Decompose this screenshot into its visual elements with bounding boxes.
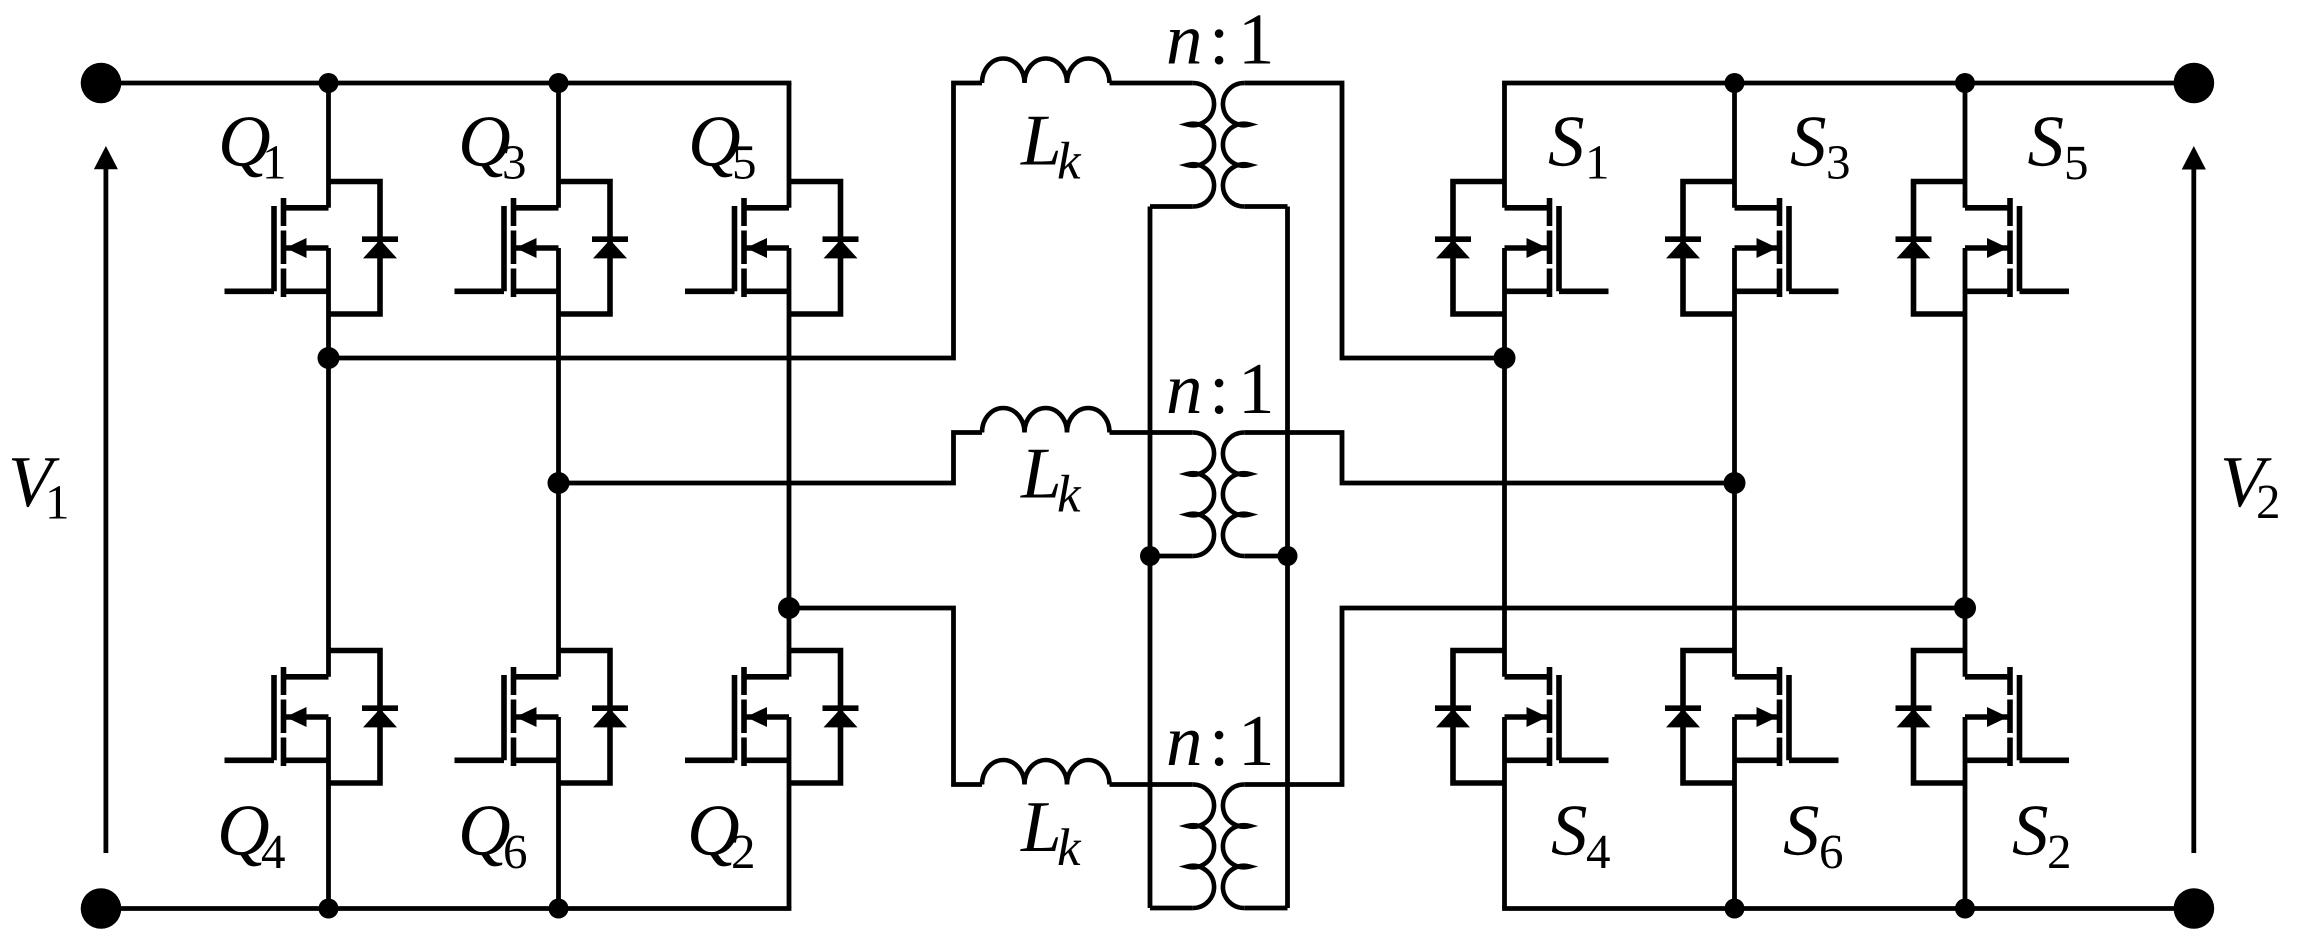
wire left leg 3 middle (source to drain, through phase node): [787, 248, 792, 677]
svg-text:1: 1: [1585, 135, 1610, 190]
wire bottom rail of right bridge (V2 -): [1502, 906, 2194, 911]
svg-text:3: 3: [502, 135, 527, 190]
transformer T1 primary winding 1 (phase A): [1187, 83, 1214, 207]
transistor S4 (MOSFET with body diode): [1435, 651, 1609, 784]
svg-text:n: n: [1166, 348, 1203, 429]
svg-text:S: S: [2028, 101, 2065, 182]
transistor S5 (MOSFET with body diode): [1896, 182, 2070, 315]
node phase B right: [1724, 472, 1746, 494]
svg-text:S: S: [1551, 790, 1588, 871]
svg-text:6: 6: [1819, 824, 1844, 879]
svg-text:S: S: [1783, 790, 1820, 871]
wire phase C from left leg 3 to series inductor: [789, 608, 982, 785]
terminal V2 positive: [2174, 63, 2215, 104]
node phase A right: [1494, 347, 1516, 369]
svg-text:4: 4: [261, 824, 286, 879]
svg-text:k: k: [1057, 465, 1082, 523]
wire right leg 1 upper (drain of top switch): [1502, 83, 1507, 208]
svg-text:5: 5: [732, 135, 757, 190]
transistor S6 (MOSFET with body diode): [1665, 651, 1839, 784]
wire left leg 1 middle (source to drain, through phase node): [326, 248, 331, 677]
node phase A left: [318, 347, 340, 369]
wire transformer T2 primary bottom hook: [1150, 554, 1193, 559]
junction bottom rail / right leg 3: [1955, 899, 1975, 919]
label V1: [8, 441, 70, 530]
inductor Lk phase C: [982, 760, 1110, 785]
wire transformer T3 secondary bottom hook: [1244, 906, 1287, 911]
svg-text:1: 1: [1238, 700, 1275, 781]
svg-text:S: S: [1548, 101, 1585, 182]
svg-text:S: S: [2012, 790, 2049, 871]
svg-text:1: 1: [262, 135, 287, 190]
svg-text:2: 2: [2047, 824, 2072, 879]
transistor Q4 (MOSFET with body diode): [225, 651, 399, 784]
svg-text:L: L: [1020, 786, 1062, 867]
wire transformer T1 primary bottom hook: [1150, 204, 1193, 209]
terminal V1 negative: [81, 888, 122, 929]
label S2: [2012, 790, 2072, 880]
wire phase A inductor to transformer 1 primary: [1110, 81, 1193, 86]
wire right leg 2 upper (drain of top switch): [1732, 83, 1737, 208]
V2 arrow: [2182, 146, 2206, 853]
label V2: [2220, 441, 2281, 529]
svg-text:1: 1: [1238, 348, 1275, 429]
label S6: [1783, 790, 1844, 880]
svg-text:4: 4: [1586, 824, 1611, 879]
wire phase B from left leg 2 to series inductor: [559, 433, 983, 484]
wire transformer T2 secondary bottom hook: [1244, 554, 1287, 559]
label n:1 of transformer T2: [1166, 348, 1275, 429]
svg-text:k: k: [1057, 819, 1082, 877]
terminal V2 negative: [2174, 888, 2215, 929]
label S3: [1790, 101, 1851, 190]
wire transformer 3 secondary to right leg 3 node: [1244, 608, 1965, 785]
transistor S3 (MOSFET with body diode): [1665, 182, 1839, 315]
wire right leg 2 middle (source to drain, through phase node): [1732, 248, 1737, 677]
junction bottom rail / left leg 1: [319, 899, 339, 919]
junction primary chain / T2 primary: [1140, 546, 1160, 566]
wire top rail of left bridge (V1 +): [101, 81, 791, 86]
junction top rail / left leg 1: [319, 73, 339, 93]
svg-text::: :: [1209, 348, 1229, 429]
wire transformer 1 secondary to right leg 1 node: [1244, 83, 1504, 358]
junction top rail / left leg 2: [549, 73, 569, 93]
svg-text:n: n: [1166, 0, 1203, 80]
svg-text:2: 2: [2256, 474, 2281, 529]
wire left leg 2 middle (source to drain, through phase node): [556, 248, 561, 677]
transformer T2 primary winding 2 (phase B): [1187, 432, 1214, 556]
inductor Lk phase A: [982, 58, 1110, 83]
node phase B left: [548, 472, 570, 494]
terminal V1 positive: [81, 63, 122, 104]
transistor Q1 (MOSFET with body diode): [225, 182, 399, 315]
wire right leg 3 lower (to bottom rail): [1963, 717, 1968, 909]
wire phase C inductor to transformer 3 primary: [1110, 782, 1193, 787]
inductor Lk phase B: [982, 408, 1110, 433]
wire right leg 3 middle (source to drain, through phase node): [1963, 248, 1968, 677]
label Q3: [458, 101, 527, 190]
label S1: [1548, 101, 1610, 190]
node phase C left: [778, 597, 800, 619]
wire primary star chain: [1148, 207, 1153, 909]
svg-text:1: 1: [1238, 0, 1275, 80]
junction bottom rail / right leg 2: [1725, 899, 1745, 919]
wire phase B inductor to transformer 2 primary: [1110, 430, 1193, 435]
svg-text:2: 2: [731, 824, 756, 879]
wire left leg 2 upper (drain of top switch): [556, 83, 561, 208]
label Q6: [458, 790, 528, 880]
svg-text::: :: [1209, 700, 1229, 781]
svg-text::: :: [1209, 0, 1229, 80]
wire transformer T1 secondary bottom hook: [1244, 204, 1287, 209]
svg-text:n: n: [1166, 700, 1203, 781]
wire left leg 3 upper (drain of top switch): [787, 83, 792, 208]
transistor Q6 (MOSFET with body diode): [455, 651, 629, 784]
transistor Q5 (MOSFET with body diode): [685, 182, 859, 315]
label Q5: [688, 101, 757, 190]
label n:1 of transformer T1: [1166, 0, 1275, 80]
transformer T3 primary winding 3 (phase C): [1187, 784, 1214, 908]
transistor Q3 (MOSFET with body diode): [455, 182, 629, 315]
transformer T3 secondary winding: [1223, 784, 1250, 908]
wire left leg 1 lower (to bottom rail): [326, 717, 331, 909]
label n:1 of transformer T3: [1166, 700, 1275, 781]
wire transformer T3 primary bottom hook: [1150, 906, 1193, 911]
wire right leg 1 lower (to bottom rail): [1502, 717, 1507, 909]
V1 arrow: [94, 146, 118, 853]
wire right leg 3 upper (drain of top switch): [1963, 83, 1968, 208]
wire phase A from left leg 1 to series inductor: [329, 83, 983, 358]
wire secondary star chain: [1285, 207, 1290, 909]
transformer T1 secondary winding: [1223, 83, 1250, 207]
svg-text:L: L: [1020, 100, 1062, 181]
wire right leg 2 lower (to bottom rail): [1732, 717, 1737, 909]
label Q2: [687, 790, 756, 880]
wire left leg 1 upper (drain of top switch): [326, 83, 331, 208]
svg-text:1: 1: [45, 475, 70, 530]
junction secondary chain / T2 secondary: [1278, 546, 1298, 566]
label Lk phase B: [1020, 433, 1082, 524]
label Lk phase C: [1020, 786, 1082, 877]
wire transformer 2 secondary to right leg 2 node: [1244, 433, 1734, 484]
label Q4: [217, 790, 286, 880]
svg-text:S: S: [1790, 101, 1827, 182]
label Q1: [218, 101, 287, 190]
transistor S1 (MOSFET with body diode): [1435, 182, 1609, 315]
wire left leg 3 lower (to bottom rail): [787, 717, 792, 909]
label Lk phase A: [1020, 100, 1082, 191]
svg-text:k: k: [1057, 133, 1082, 191]
transistor S2 (MOSFET with body diode): [1896, 651, 2070, 784]
transistor Q2 (MOSFET with body diode): [685, 651, 859, 784]
junction bottom rail / left leg 2: [549, 899, 569, 919]
svg-text:6: 6: [503, 824, 528, 879]
label S5: [2028, 101, 2089, 191]
svg-text:L: L: [1020, 433, 1062, 514]
junction top rail / right leg 3: [1955, 73, 1975, 93]
junction top rail / right leg 2: [1725, 73, 1745, 93]
wire top rail of right bridge (V2 +): [1502, 81, 2194, 86]
svg-text:3: 3: [1826, 135, 1851, 190]
label S4: [1551, 790, 1611, 880]
transformer T2 secondary winding: [1223, 432, 1250, 556]
node phase C right: [1954, 597, 1976, 619]
svg-text:5: 5: [2064, 135, 2089, 190]
wire bottom rail of left bridge (V1 -): [101, 906, 791, 911]
wire right leg 1 middle (source to drain, through phase node): [1502, 248, 1507, 677]
wire left leg 2 lower (to bottom rail): [556, 717, 561, 909]
